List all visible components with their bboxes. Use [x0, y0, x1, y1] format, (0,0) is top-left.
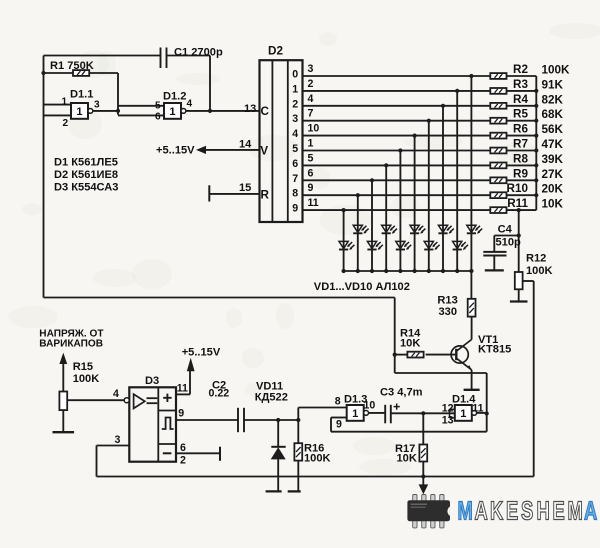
svg-text:1: 1 [352, 408, 358, 420]
svg-text:A: A [584, 497, 597, 526]
svg-text:3: 3 [94, 100, 100, 111]
svg-text:7: 7 [292, 173, 298, 185]
svg-text:R4: R4 [513, 93, 528, 106]
svg-text:100K: 100K [542, 64, 571, 77]
svg-text:6: 6 [308, 167, 314, 179]
svg-text:КД522: КД522 [255, 392, 288, 404]
svg-text:D1.2: D1.2 [163, 91, 186, 103]
svg-text:9: 9 [292, 203, 298, 215]
svg-text:9: 9 [336, 419, 342, 431]
svg-text:K: K [490, 497, 503, 526]
svg-text:100K: 100K [526, 265, 553, 277]
svg-text:39K: 39K [542, 153, 564, 166]
svg-text:R1 750K: R1 750K [50, 60, 94, 72]
svg-text:6: 6 [292, 158, 298, 170]
svg-text:4: 4 [187, 99, 193, 110]
svg-text:3: 3 [115, 434, 121, 446]
svg-text:R11: R11 [507, 197, 528, 210]
svg-text:C4: C4 [498, 224, 513, 236]
svg-text:E: E [506, 497, 518, 526]
svg-text:27K: 27K [542, 168, 564, 181]
svg-text:2: 2 [63, 118, 69, 129]
svg-text:R10: R10 [507, 182, 529, 195]
svg-text:10: 10 [364, 400, 376, 412]
svg-text:0: 0 [292, 69, 298, 81]
svg-text:R2: R2 [513, 63, 528, 76]
svg-text:4: 4 [308, 93, 314, 105]
svg-text:+5..15V: +5..15V [182, 347, 221, 359]
svg-text:M: M [568, 497, 583, 526]
svg-text:6: 6 [155, 112, 161, 123]
svg-text:10K: 10K [542, 198, 564, 211]
svg-text:C1 2700p: C1 2700p [174, 47, 223, 59]
svg-text:8: 8 [335, 396, 341, 408]
svg-text:1: 1 [460, 408, 466, 420]
svg-text:R8: R8 [513, 152, 528, 165]
svg-text:9: 9 [308, 182, 314, 194]
svg-text:3: 3 [308, 63, 314, 75]
svg-text:VD1...VD10 АЛ102: VD1...VD10 АЛ102 [314, 281, 410, 293]
svg-text:2: 2 [308, 78, 314, 90]
svg-text:100K: 100K [73, 373, 100, 385]
svg-text:V: V [260, 145, 268, 158]
svg-text:82K: 82K [542, 93, 564, 106]
svg-text:7: 7 [308, 108, 314, 120]
svg-text:330: 330 [439, 306, 458, 318]
svg-text:9: 9 [178, 408, 184, 420]
svg-text:14: 14 [239, 138, 252, 150]
svg-text:C3 4,7m: C3 4,7m [380, 387, 423, 399]
svg-text:12: 12 [442, 403, 454, 415]
svg-text:13: 13 [244, 103, 256, 115]
svg-text:S: S [521, 497, 533, 526]
svg-text:5: 5 [292, 143, 298, 155]
svg-text:3: 3 [292, 113, 298, 125]
svg-text:11: 11 [177, 383, 188, 395]
svg-text:4: 4 [113, 388, 119, 400]
svg-text:D3: D3 [145, 375, 159, 387]
svg-text:5: 5 [155, 101, 161, 112]
svg-text:R12: R12 [526, 253, 546, 265]
svg-text:R15: R15 [73, 361, 93, 373]
svg-text:11: 11 [308, 197, 319, 209]
svg-text:1: 1 [308, 138, 314, 150]
svg-text:R3: R3 [513, 78, 528, 91]
svg-text:2: 2 [180, 455, 186, 467]
svg-text:R13: R13 [437, 295, 457, 307]
svg-text:20K: 20K [542, 183, 564, 196]
svg-text:56K: 56K [542, 123, 564, 136]
svg-text:D2 К561ИЕ8: D2 К561ИЕ8 [54, 169, 118, 181]
svg-text:5: 5 [308, 152, 314, 164]
svg-text:2: 2 [292, 98, 298, 110]
svg-text:13: 13 [442, 415, 454, 427]
svg-text:91K: 91K [542, 78, 564, 91]
svg-text:0.22: 0.22 [209, 388, 230, 400]
svg-text:M: M [458, 497, 473, 526]
svg-text:R: R [261, 189, 270, 202]
svg-text:D1 К561ЛЕ5: D1 К561ЛЕ5 [54, 157, 118, 169]
svg-text:1: 1 [62, 97, 68, 108]
svg-text:6: 6 [180, 442, 186, 454]
svg-text:1: 1 [169, 106, 175, 118]
svg-text:+5..15V: +5..15V [156, 145, 195, 157]
svg-text:D2: D2 [268, 45, 283, 58]
svg-text:E: E [553, 497, 565, 526]
svg-text:100K: 100K [304, 453, 331, 465]
svg-text:D3 К554СА3: D3 К554СА3 [54, 182, 118, 194]
svg-text:H: H [537, 497, 550, 526]
svg-text:A: A [475, 497, 488, 526]
svg-text:68K: 68K [542, 108, 564, 121]
svg-text:ВАРИКАПОВ: ВАРИКАПОВ [39, 339, 103, 350]
svg-text:C: C [261, 105, 270, 118]
svg-text:8: 8 [292, 188, 298, 200]
svg-text:10K: 10K [400, 338, 420, 350]
svg-text:4: 4 [292, 128, 298, 140]
svg-text:R9: R9 [513, 167, 528, 180]
svg-text:R5: R5 [513, 108, 528, 121]
svg-text:1: 1 [76, 106, 82, 118]
svg-text:10: 10 [308, 123, 320, 135]
svg-text:10K: 10K [397, 453, 417, 465]
svg-text:R7: R7 [513, 138, 528, 151]
svg-text:47K: 47K [542, 138, 564, 151]
svg-text:510p: 510p [496, 237, 522, 249]
svg-text:15: 15 [239, 182, 251, 194]
svg-text:1: 1 [292, 83, 298, 95]
svg-text:D1.1: D1.1 [70, 89, 93, 101]
svg-text:R6: R6 [513, 123, 528, 136]
svg-text:KT815: KT815 [478, 344, 511, 356]
